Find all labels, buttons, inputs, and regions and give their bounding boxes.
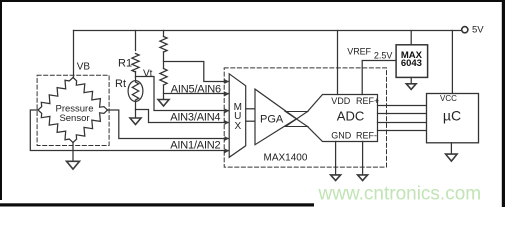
microcontroller uC — [427, 94, 479, 143]
wire REF- pin to ground — [362, 142, 364, 176]
svg-text:www.cntronics.com: www.cntronics.com — [318, 184, 482, 205]
wire divider bottom to ground — [163, 85, 165, 100]
svg-text:REF-: REF- — [356, 130, 377, 140]
svg-text:VREF: VREF — [347, 47, 371, 57]
wire divider mid node — [163, 52, 165, 69]
svg-text:5V: 5V — [472, 25, 484, 36]
wire AIN3 from Vt node — [136, 77, 229, 111]
ground divider — [158, 100, 169, 107]
wire MUX out- — [246, 120, 255, 122]
resistor R1 — [118, 54, 139, 73]
svg-text:AIN3/AIN4: AIN3/AIN4 — [170, 111, 220, 123]
wire rail to divider — [163, 31, 165, 37]
svg-text:Vt: Vt — [143, 69, 153, 80]
wire MUX out+ — [246, 108, 255, 110]
svg-text:6043: 6043 — [401, 58, 422, 69]
node PGA-ADC bowtie — [286, 112, 308, 127]
ground bridge — [67, 161, 80, 169]
wire GND pin to ground — [335, 142, 337, 176]
ground MAX6043 — [406, 84, 416, 90]
wire AIN5 from divider tap — [164, 62, 229, 82]
wire uC to ground — [450, 143, 452, 154]
wire data bus line 2 — [378, 113, 428, 115]
wire R1 to Vt node — [135, 72, 137, 82]
pressure sensor label — [55, 103, 93, 124]
svg-text:Sensor: Sensor — [59, 113, 89, 124]
resistor bridge arm bottom-left — [38, 110, 73, 143]
ground ADC REF- — [358, 175, 368, 181]
wire VDD pin to rail — [337, 31, 339, 95]
svg-text:VCC: VCC — [440, 94, 457, 103]
resistor bridge arm top-right — [73, 78, 108, 111]
svg-text:AIN1/AIN2: AIN1/AIN2 — [170, 139, 220, 151]
ground Rt — [130, 118, 141, 125]
svg-text:µC: µC — [443, 107, 461, 123]
wire +5V top rail — [74, 30, 462, 32]
wire data bus line 1 — [378, 105, 428, 107]
wire AIN4 from Rt bottom — [136, 110, 229, 123]
voltage reference U2 MAX6043 — [396, 45, 428, 78]
wire rail to R1 — [135, 31, 137, 51]
wire AIN2 from bridge left node — [30, 110, 228, 151]
wire bridge bottom to ground — [72, 143, 74, 162]
wire AIN1 from bridge right node — [108, 110, 229, 139]
resistor bridge arm top-left — [38, 78, 73, 111]
wire rail to uC VCC — [451, 31, 453, 94]
svg-text:Rt: Rt — [115, 78, 126, 90]
svg-text:R1: R1 — [118, 58, 132, 70]
ground uC — [446, 154, 458, 161]
MAX1400 dashed enclosure — [224, 68, 386, 167]
ground ADC GND — [331, 175, 341, 181]
svg-text:GND: GND — [331, 130, 352, 140]
svg-text:X: X — [234, 121, 241, 132]
svg-text:REF+: REF+ — [356, 96, 379, 106]
mux MUX — [229, 74, 246, 158]
pressure sensor dashed enclosure — [37, 75, 109, 145]
wire VB supply to bridge — [73, 31, 75, 78]
resistor divider upper — [160, 37, 167, 53]
svg-text:ADC: ADC — [337, 109, 364, 124]
svg-text:2.5V: 2.5V — [374, 51, 393, 61]
wire Rt node to ground — [135, 110, 137, 119]
resistor divider lower — [160, 69, 167, 86]
adc ADC block — [308, 95, 380, 142]
svg-text:AIN5/AIN6: AIN5/AIN6 — [171, 83, 221, 95]
wire data bus line 3 — [378, 122, 428, 124]
wire Rt bottom node — [135, 101, 137, 109]
svg-text:VB: VB — [77, 61, 91, 72]
node 5V terminal — [462, 25, 485, 36]
wire AIN6 from divider bottom — [164, 93, 229, 95]
wire rail to MAX6043 — [410, 31, 412, 45]
svg-text:VDD: VDD — [331, 96, 351, 106]
wire MAX6043 to ground — [410, 77, 412, 83]
svg-text:PGA: PGA — [260, 114, 284, 126]
op-amp PGA — [255, 89, 297, 145]
thermistor Rt — [115, 78, 143, 101]
wire data bus line 4 — [378, 130, 428, 132]
svg-text:MAX1400: MAX1400 — [264, 153, 308, 164]
wire REF+ pin — [362, 61, 396, 95]
resistor bridge arm bottom-right — [73, 110, 108, 143]
